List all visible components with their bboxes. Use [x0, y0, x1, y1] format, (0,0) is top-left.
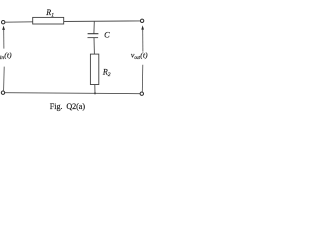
capacitor C — [88, 34, 99, 38]
svg-text:vout(t): vout(t) — [131, 51, 148, 62]
wire: R2 bottom lead — [94, 85, 96, 94]
svg-text:C: C — [104, 31, 110, 40]
terminal node: vin- (bottom-left) — [1, 91, 4, 94]
svg-text:R1: R1 — [45, 8, 54, 19]
terminal node: vin+ (top-left) — [2, 21, 5, 24]
svg-text:R2: R2 — [102, 67, 111, 78]
wire: capacitor to R2 — [93, 38, 95, 55]
wire: capacitor top lead from top junction — [93, 21, 95, 34]
svg-text:Fig. Q2(a): Fig. Q2(a) — [50, 102, 86, 111]
wire: bottom rail — [5, 93, 140, 94]
terminal node: vout- (bottom-right) — [140, 92, 143, 95]
arrow: vin polarity arrow (upper shaft + head) — [2, 26, 5, 49]
terminal node: vout+ (top-right) — [140, 19, 143, 22]
wire: top-left terminal to R1 — [5, 21, 33, 23]
arrow: vout polarity arrow (upper shaft + head) — [141, 25, 144, 51]
resistor R1 — [33, 17, 64, 24]
wire: vin lower shaft — [3, 67, 6, 91]
wire: vout lower shaft — [141, 65, 144, 92]
resistor R2 — [90, 54, 98, 84]
wire: R1 to top-right terminal — [64, 20, 141, 23]
svg-text:vin(t): vin(t) — [0, 50, 12, 61]
node: bottom junction dot — [94, 92, 96, 94]
